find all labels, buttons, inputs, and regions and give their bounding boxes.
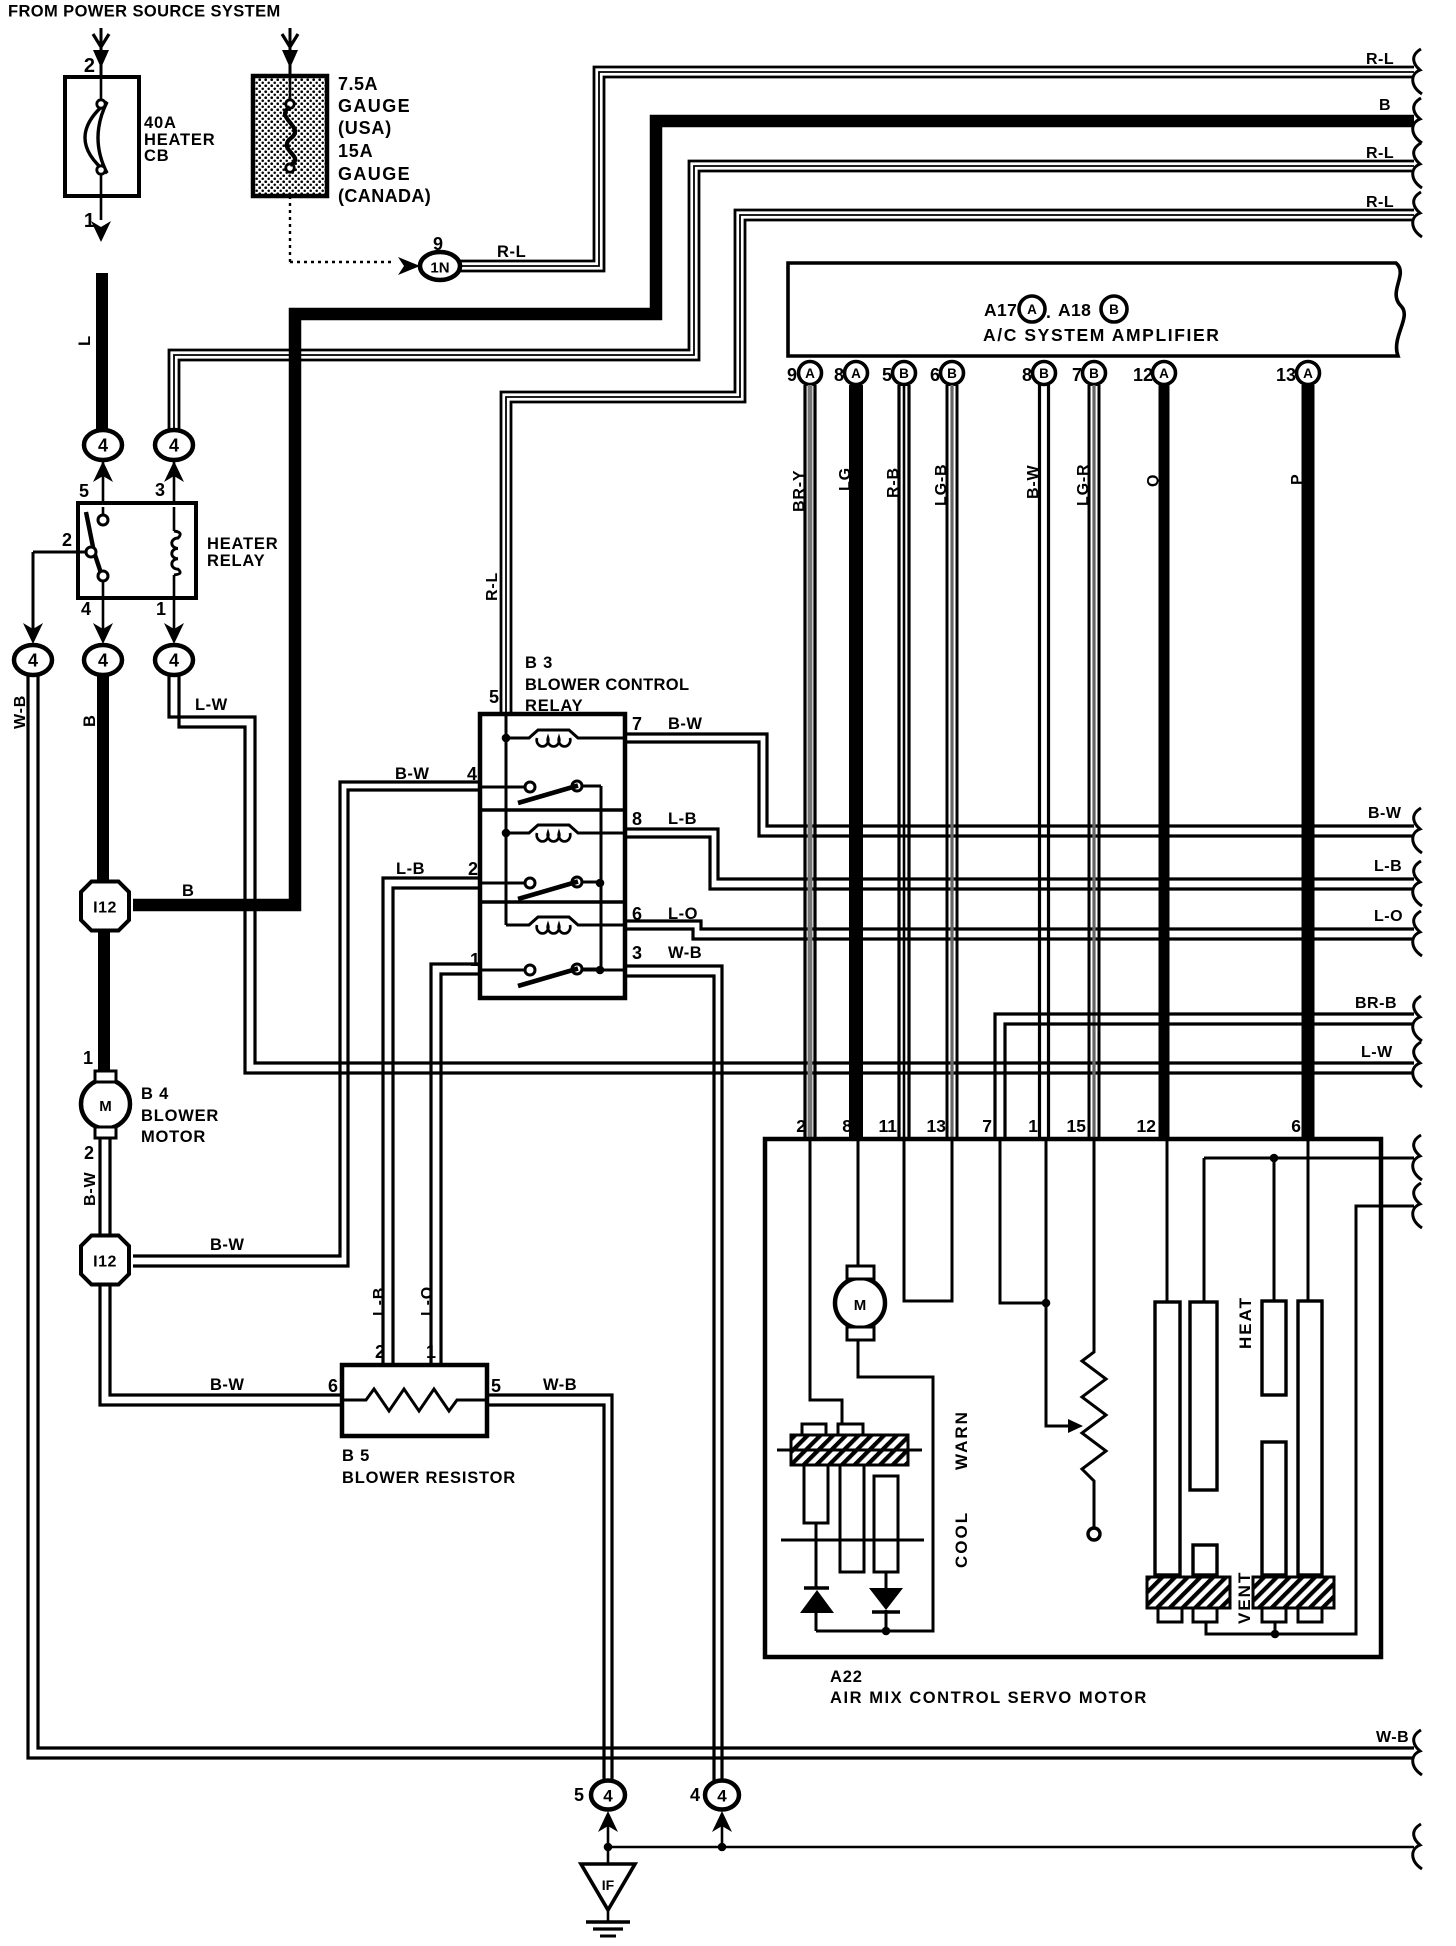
svg-text:12: 12: [1133, 365, 1153, 385]
svg-text:.: .: [1046, 302, 1051, 322]
svg-text:3: 3: [632, 943, 643, 963]
svg-text:13: 13: [927, 1116, 947, 1136]
svg-text:7: 7: [632, 714, 643, 734]
svg-text:R-L: R-L: [497, 243, 526, 261]
svg-text:5: 5: [489, 687, 499, 707]
svg-text:LG-B: LG-B: [933, 464, 950, 506]
svg-text:LG-R: LG-R: [1075, 464, 1092, 506]
svg-text:A/C SYSTEM AMPLIFIER: A/C SYSTEM AMPLIFIER: [983, 325, 1220, 345]
svg-text:B-W: B-W: [395, 765, 429, 783]
svg-text:VENT: VENT: [1235, 1571, 1254, 1624]
svg-text:W-B: W-B: [668, 944, 702, 962]
svg-text:I12: I12: [93, 900, 117, 917]
svg-text:1: 1: [470, 950, 480, 970]
svg-text:4: 4: [717, 1787, 727, 1806]
svg-text:5: 5: [574, 1785, 584, 1805]
svg-text:4: 4: [467, 764, 477, 784]
svg-text:L-B: L-B: [371, 1287, 388, 1316]
svg-text:8: 8: [834, 365, 844, 385]
svg-text:4: 4: [98, 436, 108, 456]
svg-text:1: 1: [84, 210, 95, 232]
svg-text:2: 2: [62, 530, 72, 550]
svg-text:MOTOR: MOTOR: [141, 1128, 206, 1146]
svg-text:A: A: [1303, 366, 1313, 381]
svg-text:HEAT: HEAT: [1236, 1296, 1255, 1349]
svg-text:B-W: B-W: [82, 1172, 99, 1206]
svg-text:8: 8: [632, 809, 643, 829]
svg-text:9: 9: [787, 365, 797, 385]
svg-text:B: B: [899, 366, 909, 381]
svg-text:AIR MIX CONTROL SERVO MOTOR: AIR MIX CONTROL SERVO MOTOR: [830, 1689, 1148, 1707]
svg-text:5: 5: [491, 1376, 502, 1396]
svg-text:7: 7: [982, 1116, 992, 1136]
svg-text:CB: CB: [144, 147, 169, 165]
svg-text:BR-B: BR-B: [1355, 995, 1397, 1012]
svg-text:A: A: [1027, 302, 1037, 317]
svg-text:R-B: R-B: [885, 467, 902, 498]
svg-text:B-W: B-W: [1368, 805, 1402, 822]
svg-text:R-L: R-L: [484, 572, 501, 601]
svg-text:L-W: L-W: [1361, 1044, 1393, 1061]
svg-text:5: 5: [882, 365, 892, 385]
svg-text:B: B: [1379, 97, 1391, 114]
svg-text:2: 2: [468, 859, 478, 879]
svg-text:40A: 40A: [144, 114, 177, 132]
svg-text:GAUGE: GAUGE: [338, 164, 411, 184]
svg-text:7: 7: [1072, 365, 1082, 385]
svg-text:R-L: R-L: [1366, 51, 1394, 68]
svg-text:RELAY: RELAY: [207, 552, 265, 570]
svg-text:1: 1: [1028, 1116, 1038, 1136]
svg-text:5: 5: [79, 481, 89, 501]
svg-text:(USA): (USA): [338, 118, 392, 138]
svg-text:BLOWER: BLOWER: [141, 1107, 219, 1125]
svg-text:P: P: [1289, 474, 1306, 485]
svg-text:2: 2: [796, 1116, 806, 1136]
svg-text:15: 15: [1067, 1116, 1087, 1136]
svg-text:M: M: [99, 1098, 112, 1115]
svg-text:A: A: [805, 366, 815, 381]
svg-text:A: A: [851, 366, 861, 381]
svg-text:8: 8: [1022, 365, 1032, 385]
svg-text:B-W: B-W: [668, 715, 702, 733]
svg-text:8: 8: [842, 1116, 852, 1136]
svg-text:W-B: W-B: [12, 695, 29, 729]
svg-text:B: B: [182, 882, 195, 900]
svg-text:Q: Q: [1145, 474, 1162, 487]
svg-text:L: L: [76, 335, 94, 346]
svg-text:B-W: B-W: [210, 1376, 244, 1394]
svg-text:6: 6: [1291, 1116, 1301, 1136]
svg-text:L-O: L-O: [1374, 908, 1403, 925]
svg-text:B-W: B-W: [210, 1236, 244, 1254]
svg-text:BR-Y: BR-Y: [791, 470, 808, 512]
svg-text:B: B: [1039, 366, 1049, 381]
svg-text:L-W: L-W: [195, 696, 228, 714]
svg-text:BLOWER RESISTOR: BLOWER RESISTOR: [342, 1469, 516, 1487]
svg-text:7.5A: 7.5A: [338, 74, 378, 94]
svg-text:LG: LG: [837, 467, 854, 491]
svg-text:L-B: L-B: [668, 810, 697, 828]
svg-text:B 3: B 3: [525, 654, 553, 672]
svg-text:COOL: COOL: [952, 1511, 971, 1568]
svg-text:3: 3: [155, 480, 165, 500]
svg-text:L-O: L-O: [419, 1286, 436, 1316]
svg-text:L-B: L-B: [1374, 858, 1402, 875]
svg-text:BLOWER CONTROL: BLOWER CONTROL: [525, 676, 689, 694]
svg-text:4: 4: [98, 651, 108, 671]
svg-text:W-B: W-B: [543, 1376, 577, 1394]
svg-text:4: 4: [169, 436, 179, 456]
svg-text:B 4: B 4: [141, 1085, 169, 1103]
svg-text:4: 4: [81, 599, 91, 619]
svg-text:GAUGE: GAUGE: [338, 96, 411, 116]
svg-text:W-B: W-B: [1376, 1729, 1409, 1746]
svg-text:11: 11: [879, 1116, 898, 1136]
svg-text:2: 2: [84, 55, 95, 77]
svg-text:A: A: [1159, 366, 1169, 381]
svg-text:6: 6: [328, 1376, 338, 1396]
svg-text:A17: A17: [984, 300, 1017, 320]
svg-text:A18: A18: [1058, 300, 1091, 320]
svg-text:B-W: B-W: [1025, 465, 1042, 499]
svg-text:R-L: R-L: [1366, 194, 1394, 211]
svg-text:(CANADA): (CANADA): [338, 186, 431, 206]
svg-text:B: B: [947, 366, 957, 381]
svg-text:13: 13: [1276, 365, 1296, 385]
svg-text:15A: 15A: [338, 141, 373, 161]
svg-text:I12: I12: [93, 1254, 117, 1271]
svg-text:WARN: WARN: [952, 1410, 971, 1470]
svg-text:B 5: B 5: [342, 1447, 370, 1465]
svg-text:4: 4: [603, 1787, 613, 1806]
svg-text:6: 6: [930, 365, 940, 385]
svg-text:HEATER: HEATER: [207, 535, 278, 553]
svg-text:1: 1: [156, 599, 166, 619]
svg-text:A22: A22: [830, 1668, 863, 1686]
svg-text:FROM POWER SOURCE SYSTEM: FROM POWER SOURCE SYSTEM: [8, 3, 281, 21]
svg-text:1: 1: [83, 1048, 93, 1068]
svg-text:1N: 1N: [430, 260, 449, 277]
svg-text:4: 4: [28, 651, 38, 671]
svg-text:B: B: [1089, 366, 1099, 381]
svg-text:4: 4: [169, 651, 179, 671]
svg-text:B: B: [1109, 302, 1119, 317]
svg-text:M: M: [854, 1297, 867, 1314]
svg-text:12: 12: [1137, 1116, 1157, 1136]
svg-text:R-L: R-L: [1366, 145, 1394, 162]
svg-text:IF: IF: [602, 1877, 615, 1893]
svg-text:L-B: L-B: [396, 860, 425, 878]
svg-text:2: 2: [84, 1143, 94, 1163]
svg-text:4: 4: [690, 1785, 700, 1805]
svg-text:B: B: [81, 714, 99, 727]
